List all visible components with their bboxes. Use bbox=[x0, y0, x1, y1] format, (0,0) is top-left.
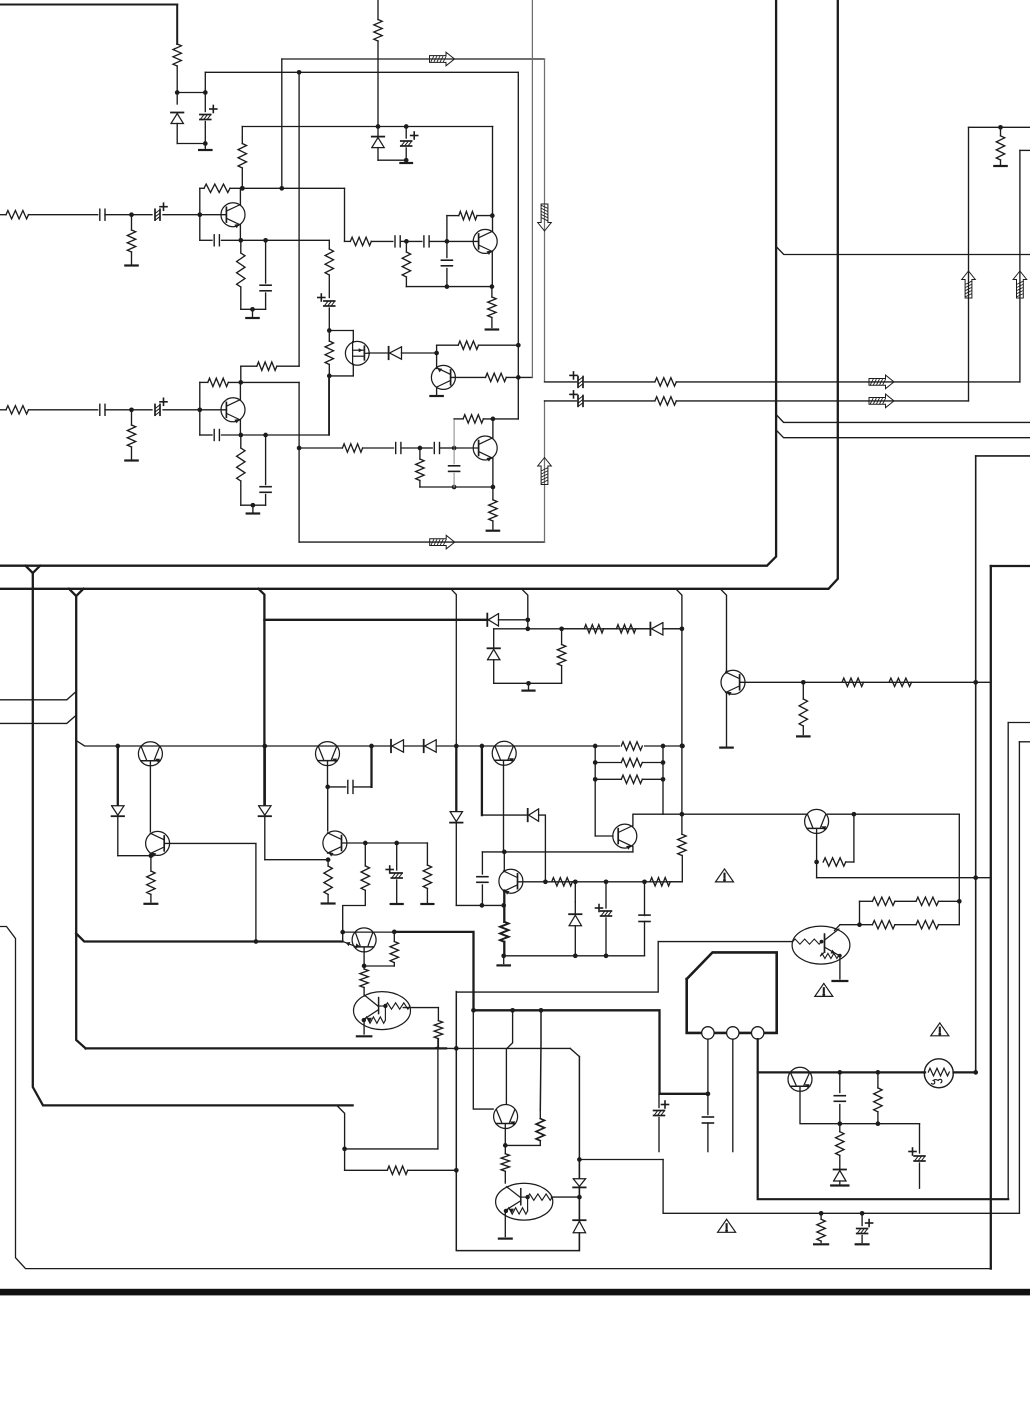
diode D114 bbox=[573, 1197, 585, 1251]
wire x438 bbox=[437, 1039, 439, 1149]
transistor Q106 bbox=[454, 436, 497, 462]
wire Q109 bottom bbox=[325, 761, 330, 789]
wire thick bus 2 right bbox=[0, 0, 838, 589]
wire thin branch x528 bbox=[522, 589, 531, 631]
wire x541 up bbox=[539, 1010, 542, 1110]
resistor R138 bbox=[423, 843, 431, 902]
black bar bottom bbox=[0, 1289, 1030, 1296]
capacitor C118 bbox=[449, 448, 460, 487]
wire net y932 bbox=[340, 930, 473, 935]
wire collector Q105 bbox=[239, 382, 241, 399]
wire y188 to y241 jog bbox=[344, 188, 346, 241]
capacitor C108 electrolytic bbox=[318, 294, 335, 333]
transistor Q116 bbox=[613, 824, 637, 850]
wire thick x482 bbox=[482, 746, 528, 815]
transistor Q102 FET bbox=[345, 341, 369, 365]
wire x682 jog bbox=[670, 856, 682, 882]
capacitor C117 bbox=[420, 443, 457, 454]
wire net y742 bbox=[1019, 741, 1030, 743]
wire bbox=[376, 41, 381, 137]
wire net y566 right bbox=[991, 565, 1030, 567]
wire emitter Q121 ground bbox=[504, 1212, 506, 1237]
wire base bypass y240 bbox=[200, 239, 212, 241]
resistor R112 bbox=[345, 237, 393, 245]
wire x329 down bbox=[328, 376, 330, 435]
capacitor C111 bbox=[441, 241, 452, 286]
wire net out2 y401 bbox=[545, 400, 969, 402]
wire joins rail bbox=[434, 1047, 439, 1048]
wire y683 bbox=[494, 681, 562, 686]
wire net y722 bbox=[1008, 722, 1030, 724]
wire emitter Q104 bbox=[491, 252, 493, 287]
capacitor C126 bbox=[639, 882, 650, 956]
wire x329 up to source bbox=[328, 376, 330, 435]
ground bbox=[487, 530, 499, 532]
wire thick frame y932-1010 bbox=[394, 932, 710, 1096]
wire thick frame right x991 bbox=[990, 566, 992, 1269]
wire Q113 base out bbox=[403, 1008, 438, 1021]
wire y966 bbox=[364, 965, 394, 967]
resistor R132 bbox=[842, 678, 864, 686]
wire x242 collector drop bbox=[241, 127, 243, 144]
transistor Q121 with bias resistors bbox=[496, 1183, 553, 1220]
wire y860 emitter bbox=[265, 857, 331, 862]
wire emitter Q120 bbox=[503, 1124, 508, 1154]
wire thick bus B+ right bbox=[0, 0, 776, 566]
wire FET source bbox=[329, 364, 353, 376]
transistor Q110 bbox=[146, 831, 170, 857]
thermistor TH101 bbox=[924, 1059, 953, 1088]
resistor R127 bbox=[996, 127, 1004, 164]
ground bbox=[246, 309, 258, 318]
diode D110 bbox=[528, 809, 548, 884]
resistor R131 bbox=[799, 682, 807, 734]
wire collector Q106 bbox=[492, 419, 494, 438]
warning mark bbox=[931, 1023, 949, 1036]
wire thick y620 bbox=[264, 619, 487, 621]
wire bbox=[29, 409, 98, 411]
wire y435 rail bbox=[241, 433, 329, 438]
warning mark bbox=[815, 983, 833, 996]
transistor Q120 bbox=[494, 1105, 518, 1129]
wire stack left x595 bbox=[593, 746, 598, 836]
wire y628 net bbox=[494, 626, 682, 631]
wire y1145 bbox=[505, 1144, 540, 1146]
capacitor C127 bbox=[702, 1117, 713, 1152]
wire net y814 right bbox=[828, 813, 960, 815]
resistor R118 feedback bbox=[200, 378, 299, 386]
wire base Q111 net bbox=[342, 841, 428, 846]
ground bbox=[856, 1243, 869, 1245]
wire thick x118 diode leg bbox=[117, 746, 119, 806]
wire net y150 bbox=[1020, 149, 1030, 151]
resistor R149 bbox=[860, 897, 917, 905]
wire x968 vertical bbox=[968, 127, 970, 401]
wire thick x371 bbox=[370, 746, 372, 787]
resistor R151 bbox=[840, 921, 916, 929]
ground bbox=[145, 903, 158, 905]
wire y628 left bbox=[562, 628, 585, 630]
resistor R146 bbox=[595, 758, 663, 766]
ground bbox=[125, 264, 137, 266]
wire feedback x854 bbox=[853, 814, 855, 862]
resistor R106 bbox=[238, 144, 246, 191]
wire vertical x299 upper bbox=[298, 72, 300, 366]
capacitor C120 electrolytic bbox=[570, 391, 583, 406]
wire thick x457 to diode bbox=[455, 746, 457, 812]
transistor Q111 bbox=[323, 831, 347, 857]
wire base Q110 bbox=[165, 842, 256, 844]
wire Q119 bottom bbox=[800, 1087, 920, 1126]
arrow signal right bbox=[430, 52, 455, 66]
arrow signal right out2 bbox=[869, 394, 894, 408]
resistor R114 feedback bbox=[447, 211, 495, 241]
ic pin 3 bbox=[752, 1027, 764, 1039]
resistor R111 base Q103 bbox=[451, 373, 533, 381]
ground bbox=[523, 683, 535, 690]
resistor R141 bbox=[434, 1021, 442, 1047]
wire net y700 left bbox=[0, 692, 76, 700]
capacitor C130 electrolytic bbox=[857, 1213, 873, 1242]
wire bottom node bbox=[177, 141, 207, 146]
ic pin 2 bbox=[727, 1027, 739, 1039]
wire y905 bbox=[456, 903, 506, 908]
resistor R110 bbox=[437, 341, 521, 349]
diode D102 bbox=[372, 137, 384, 161]
wire vertical x282 bbox=[279, 59, 284, 191]
wire net y814 bbox=[663, 812, 856, 817]
resistor R152 bbox=[916, 921, 959, 929]
resistor R134 bbox=[620, 740, 644, 752]
resistor R115 bbox=[488, 287, 496, 328]
transistor Q115 bbox=[499, 869, 523, 895]
wire to FET drain bbox=[329, 331, 353, 343]
wire y487 rail bbox=[420, 485, 495, 490]
capacitor C109 bbox=[395, 236, 409, 247]
resistor R120 emitter bbox=[237, 435, 245, 505]
arrow signal up x1020 bbox=[1013, 271, 1027, 298]
ic pin 1 bbox=[702, 1027, 714, 1039]
ground bbox=[486, 328, 498, 330]
ground bbox=[994, 165, 1006, 167]
wire thin branch x682 bbox=[676, 589, 684, 834]
wire collector Q104 bbox=[492, 127, 494, 232]
wire x959 down bbox=[957, 814, 962, 925]
wire input 2 bbox=[0, 409, 6, 411]
resistor R150 bbox=[916, 897, 959, 905]
wire base drop x256 bbox=[255, 844, 257, 942]
resistor R121 bbox=[299, 444, 393, 452]
resistor R148 bbox=[823, 858, 854, 866]
wire gray x532 bbox=[531, 0, 533, 377]
ground bbox=[833, 980, 848, 982]
capacitor C110 bbox=[406, 236, 449, 247]
resistor R145 bbox=[678, 834, 686, 855]
capacitor C125 electrolytic bbox=[596, 882, 612, 956]
wire thick bus branch x33 bbox=[26, 566, 353, 1106]
resistor R102 bbox=[374, 20, 382, 42]
wire net y422 bbox=[776, 415, 1030, 423]
diode D116 bbox=[424, 740, 437, 752]
wire x1020 vertical bbox=[1019, 150, 1021, 382]
wire base Q115 net y882 bbox=[518, 879, 682, 884]
transistor Q112 bbox=[344, 928, 377, 952]
resistor R133 bbox=[889, 678, 912, 686]
wire base bypass y435 bbox=[200, 434, 212, 436]
wire emitter Q112 arrow bbox=[362, 947, 367, 968]
wire net y456 bbox=[976, 455, 1030, 457]
resistor R109 bbox=[325, 331, 333, 379]
wire thick y1072 bbox=[758, 1070, 976, 1075]
wire x454 up bbox=[453, 419, 455, 448]
resistor R153 bbox=[874, 1072, 882, 1123]
wire x658 base feed bbox=[456, 942, 658, 993]
transistor Q117 bbox=[805, 809, 829, 833]
wire emitter Q106 bbox=[492, 458, 494, 487]
wire net y1170 bbox=[345, 1169, 388, 1171]
ground Q103 bbox=[430, 388, 442, 397]
resistor R107 emitter bbox=[237, 240, 245, 309]
ground bbox=[247, 505, 259, 513]
wire rail y956 bbox=[504, 953, 645, 958]
resistor R103 bbox=[6, 211, 29, 219]
ground bbox=[831, 1184, 848, 1186]
ground bbox=[199, 144, 211, 151]
resistor R139 bbox=[390, 932, 398, 966]
wire emitter Q107 bbox=[726, 693, 728, 746]
wire base Q121 bbox=[552, 1195, 582, 1200]
wire feedback left x199 bbox=[199, 188, 201, 240]
wire to Q118 collector bbox=[835, 925, 841, 931]
ic IC101 outline bbox=[687, 952, 777, 1033]
wire pin1 bbox=[707, 1039, 709, 1114]
wire emitter Q116 bbox=[632, 846, 634, 852]
capacitor C121 bbox=[328, 780, 371, 793]
wire net y126 bbox=[242, 124, 492, 129]
resistor R123 feedback bbox=[454, 415, 518, 423]
wire collector x513 jog bbox=[506, 1010, 512, 1104]
capacitor C112 bbox=[100, 404, 134, 415]
wire feedback x199 lower bbox=[199, 382, 201, 435]
wire collector drop bbox=[240, 366, 242, 382]
resistor R155 bbox=[387, 1166, 458, 1174]
diode D104 bbox=[450, 812, 462, 906]
wire bbox=[175, 66, 180, 95]
resistor R130 bbox=[616, 625, 650, 633]
resistor R147 bbox=[595, 775, 663, 783]
wire thin branch x457 upper bbox=[451, 589, 457, 746]
ground bbox=[421, 903, 433, 905]
wire pin2 bbox=[732, 1039, 734, 1152]
wire net y1160 bbox=[577, 1157, 663, 1162]
wire thick rail y1048 bbox=[86, 1047, 446, 1049]
diode D112 bbox=[834, 1170, 846, 1184]
wire net y878 bbox=[817, 877, 991, 879]
capacitor C113 electrolytic bbox=[132, 398, 203, 415]
wire net out1 y382 bbox=[545, 381, 1020, 383]
wire net y437 bbox=[776, 430, 1030, 438]
resistor R113 bbox=[402, 241, 410, 286]
resistor R129 bbox=[584, 625, 616, 633]
wire thick bus branch x76 bbox=[69, 589, 86, 1049]
arrow signal down x544 bbox=[538, 204, 552, 231]
wire collector Q116 bbox=[633, 814, 663, 826]
wire thick branch x264 bbox=[259, 589, 265, 806]
resistor R137 bbox=[343, 843, 370, 941]
capacitor C115 bbox=[260, 435, 271, 505]
wire emitter gnd rail bbox=[241, 503, 266, 508]
transistor Q109 bbox=[316, 742, 340, 766]
wire rail y1048 thin part bbox=[446, 1048, 579, 1056]
diode D103 bbox=[368, 347, 439, 359]
capacitor C116 bbox=[396, 443, 423, 454]
resistor R101 bbox=[173, 44, 181, 66]
diode D107 bbox=[650, 623, 682, 635]
resistor R158 bbox=[501, 1154, 509, 1183]
capacitor C102 electrolytic bbox=[200, 93, 217, 144]
wire net y723 left bbox=[0, 715, 76, 723]
ground bbox=[322, 902, 335, 904]
wire bbox=[29, 214, 98, 216]
diode D109 bbox=[259, 806, 271, 860]
wire gray x544 upper bbox=[544, 59, 546, 382]
resistor R142 thick bbox=[500, 922, 508, 958]
capacitor C107 bbox=[260, 240, 271, 309]
wire bus x518 bbox=[517, 72, 519, 419]
wire emitter gnd rail bbox=[241, 307, 266, 312]
resistor R116 bbox=[6, 406, 29, 414]
ground bbox=[797, 735, 809, 737]
wire net bus y59 bbox=[282, 58, 545, 60]
ground bbox=[499, 1237, 512, 1239]
resistor R126 bbox=[655, 397, 676, 405]
wire stack right x663 bbox=[661, 746, 666, 814]
diode D115 bbox=[391, 740, 404, 752]
transistor Q107 bbox=[721, 670, 745, 696]
wire base Q118 bbox=[658, 941, 792, 943]
wire x976 vertical bbox=[973, 456, 978, 1075]
wire gray x544 lower bbox=[544, 401, 546, 542]
ground bbox=[357, 1035, 371, 1037]
transistor Q103 bbox=[431, 345, 455, 389]
wire pin3 thick bbox=[758, 1039, 1009, 1199]
capacitor C105 electrolytic bbox=[132, 203, 203, 220]
resistor R119 collector load bbox=[241, 362, 299, 370]
resistor R108 bbox=[325, 249, 333, 298]
diode D105 bbox=[487, 614, 528, 626]
transistor Q108 bbox=[138, 742, 162, 766]
resistor R154 bbox=[836, 1124, 844, 1170]
wire x473 base feed bbox=[473, 1010, 493, 1109]
resistor R136 bbox=[324, 860, 332, 902]
warning mark bbox=[718, 1219, 736, 1232]
wire thin branch x726 bbox=[720, 589, 726, 671]
resistor R117 bbox=[127, 410, 135, 459]
wire bbox=[378, 158, 409, 163]
wire base Q107 net bbox=[740, 680, 991, 685]
resistor R143 bbox=[552, 878, 573, 886]
resistor R157 bbox=[536, 1110, 544, 1145]
wire base lead Q114 bbox=[503, 761, 506, 872]
wire net y542 bbox=[299, 541, 544, 543]
transistor Q104 bbox=[447, 229, 497, 255]
wire branch x344 bbox=[338, 1106, 347, 1170]
diode D108 bbox=[112, 806, 124, 856]
diode D101 bbox=[171, 93, 183, 144]
resistor R104 bbox=[127, 215, 135, 264]
wire node to C102 bbox=[177, 90, 207, 95]
wire Q109 to Q111 bbox=[327, 787, 329, 831]
capacitor C123 electrolytic bbox=[654, 1094, 669, 1152]
wire net V1 up to bus bbox=[205, 70, 518, 93]
wire x299 lower bbox=[297, 382, 302, 542]
resistor R105 feedback bbox=[200, 184, 345, 192]
resistor R128 bbox=[557, 629, 565, 684]
wire stub x860 bbox=[857, 901, 862, 927]
wire thick x265 diode leg bbox=[264, 746, 266, 806]
resistor R124 bbox=[489, 487, 497, 529]
wire net y254 top right bbox=[776, 247, 1030, 255]
wire net y1149 bbox=[345, 1148, 438, 1150]
capacitor C114 bbox=[214, 430, 241, 441]
resistor R144 bbox=[650, 878, 670, 886]
wire emitter Q117 bbox=[814, 829, 819, 878]
capacitor C119 electrolytic bbox=[570, 372, 583, 387]
transistor Q113 with bias resistors bbox=[354, 992, 411, 1030]
diode D106 bbox=[488, 629, 500, 684]
wire emitter Q105 bbox=[238, 420, 243, 437]
ground bbox=[391, 903, 403, 905]
wire y240 to x329 bbox=[241, 238, 329, 243]
wire emitter Q101 bbox=[238, 225, 243, 243]
wire net y746 rail bbox=[76, 741, 685, 749]
wire y286 rail bbox=[406, 284, 494, 289]
transistor Q119 bbox=[788, 1067, 812, 1091]
capacitor C106 bbox=[214, 235, 241, 246]
wire input 1 bbox=[0, 214, 6, 216]
transistor Q118 with bias resistors bbox=[792, 926, 850, 964]
capacitor C122 electrolytic bbox=[386, 843, 402, 902]
warning mark bbox=[716, 869, 734, 882]
wire net y127 top right bbox=[969, 125, 1030, 130]
resistor R122 bbox=[416, 448, 424, 487]
wire collector Q101 bbox=[239, 188, 241, 204]
wire x329 chain bbox=[328, 240, 330, 249]
arrow signal right y542 bbox=[430, 535, 455, 549]
ground bbox=[498, 956, 510, 966]
ground bbox=[814, 1243, 828, 1245]
ground bbox=[720, 746, 732, 748]
transistor Q114 bbox=[492, 741, 516, 765]
resistor R135 bbox=[147, 856, 155, 902]
diode D111 bbox=[569, 882, 581, 956]
arrow signal right out1 bbox=[869, 375, 894, 389]
resistor R156 bbox=[817, 1213, 825, 1242]
capacitor C129 electrolytic bbox=[909, 1124, 925, 1189]
capacitor C103 electrolytic bbox=[401, 127, 418, 161]
wire Q108 to Q110 bbox=[149, 761, 151, 831]
wire emitter Q115 thick bbox=[503, 891, 505, 922]
ground bbox=[125, 459, 137, 461]
wire x663 drop bbox=[663, 1160, 1019, 1216]
wire x1008 right bbox=[1007, 723, 1009, 1200]
capacitor C128 bbox=[834, 1072, 845, 1123]
arrow signal up x544 bbox=[538, 458, 552, 485]
resistor R125 bbox=[655, 378, 676, 386]
wire thick y941 bbox=[76, 934, 342, 944]
transistor Q101 bbox=[200, 203, 245, 229]
resistor R140 bbox=[360, 966, 368, 996]
